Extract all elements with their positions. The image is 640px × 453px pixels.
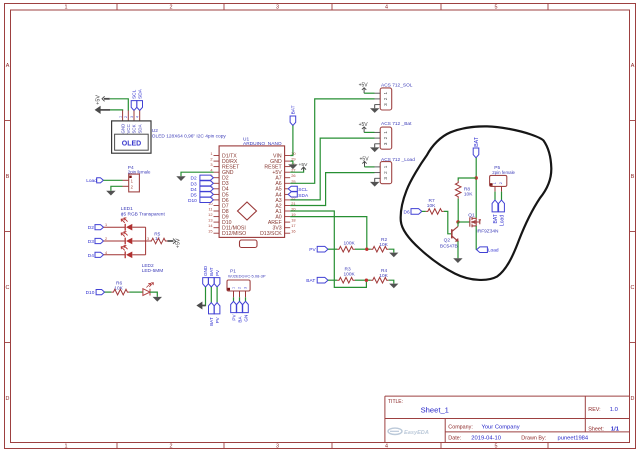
svg-text:SDA: SDA — [137, 124, 142, 133]
svg-text:Load: Load — [500, 215, 506, 226]
net flag BAT (U1 VIN) — [290, 105, 297, 125]
svg-text:4: 4 — [105, 251, 107, 255]
svg-text:3: 3 — [383, 142, 388, 145]
wires P5 pins to flags — [495, 192, 502, 201]
net flag PV (divider) — [309, 246, 328, 253]
wire Q2 emitter to ground — [457, 241, 459, 258]
svg-text:3: 3 — [276, 444, 279, 450]
MCU U1 left pin stubs — [214, 156, 220, 234]
svg-text:D5: D5 — [191, 192, 197, 198]
svg-text:BA: BA — [237, 316, 242, 323]
wire +5V to ACS712_Load pin1 — [365, 166, 375, 168]
svg-text:+5V: +5V — [359, 83, 369, 89]
wire +5V to OLED VCC — [110, 99, 128, 111]
wire U1 GND pin29 to ground — [290, 161, 293, 164]
wire U1 GND pin4 to ground — [181, 172, 214, 176]
MCU U1 left pin numbers — [208, 151, 213, 234]
svg-text:PV: PV — [309, 247, 316, 253]
svg-text:1/1: 1/1 — [611, 426, 620, 432]
svg-text:2: 2 — [499, 182, 503, 184]
svg-text:1: 1 — [65, 5, 68, 11]
svg-text:WJ2EDGVC-5.08-3P: WJ2EDGVC-5.08-3P — [228, 273, 266, 278]
net flag GND (left trio above P1) — [203, 265, 209, 287]
resistor R7 — [426, 198, 444, 214]
OLED U2 pin names — [120, 124, 142, 134]
svg-text:Q1: Q1 — [468, 213, 475, 219]
svg-text:+5V: +5V — [95, 95, 101, 105]
net flag BAT (blob top) — [473, 136, 480, 158]
svg-text:Sheet:: Sheet: — [588, 426, 604, 432]
ground (R2) — [389, 253, 398, 258]
LED2 labels — [142, 263, 164, 274]
svg-text:2pin female: 2pin female — [492, 170, 515, 175]
power flag +5V (ACS712_Bal) — [359, 122, 369, 133]
svg-text:D10: D10 — [188, 198, 197, 204]
wire Q2 collector to gate junction — [457, 222, 459, 226]
wire U1 A6 to ACS712_SOL pin2 — [290, 99, 374, 183]
wire +5V to ACS712_SOL pin1 — [364, 92, 374, 94]
svg-text:+5V: +5V — [175, 238, 181, 248]
svg-text:3: 3 — [383, 103, 388, 106]
svg-text:4: 4 — [385, 444, 388, 450]
MCU U1 right pin stubs — [285, 156, 291, 234]
svg-text:PV: PV — [215, 316, 220, 323]
wire D10 to R6 — [105, 291, 112, 293]
svg-text:1: 1 — [383, 165, 388, 168]
wire ACS712_SOL pin3 to ground — [374, 105, 376, 109]
net flag D6 (R7) — [404, 209, 422, 216]
svg-text:3: 3 — [383, 177, 388, 180]
svg-text:BAT: BAT — [209, 317, 214, 326]
svg-text:B: B — [631, 174, 635, 180]
wire ACS712_Bal pin3 to ground — [374, 144, 376, 148]
wire U1 A0 to PV divider junction — [290, 217, 367, 250]
ground (LED2) — [153, 297, 162, 302]
title block text — [388, 399, 620, 441]
svg-text:LED1: LED1 — [121, 206, 133, 212]
svg-text:LED2: LED2 — [142, 263, 154, 269]
svg-text:SCK: SCK — [132, 124, 137, 133]
svg-text:D6: D6 — [404, 209, 410, 215]
net flag D2 (LED1) — [88, 225, 104, 232]
svg-text:12: 12 — [208, 212, 212, 217]
svg-text:TITLE:: TITLE: — [388, 399, 403, 405]
wire R4 to ground — [389, 280, 394, 283]
wire R2 to ground — [389, 249, 394, 252]
svg-text:C: C — [6, 285, 10, 291]
net flag SDA (OLED) — [137, 88, 144, 110]
svg-text:1: 1 — [383, 92, 388, 95]
svg-text:4: 4 — [385, 5, 388, 11]
svg-text:D: D — [631, 396, 635, 402]
junction BAT divider — [365, 279, 368, 282]
wire gate junction to Q1 gate — [458, 221, 470, 223]
svg-text:100K: 100K — [344, 272, 356, 278]
svg-text:18: 18 — [291, 218, 295, 223]
transistor Q2 BC547B — [452, 226, 458, 241]
net flag D4 (LED1) — [88, 252, 104, 259]
net flag Load (Q1) — [477, 247, 499, 254]
resistor R5 — [149, 231, 167, 244]
ground (ACS712_Bal) — [370, 147, 379, 152]
MCU U1 diamond — [238, 202, 257, 220]
svg-text:2: 2 — [383, 171, 388, 174]
net flag D4 (U1) — [191, 186, 214, 193]
wire Load flag to P4 pin1 — [103, 179, 122, 181]
wire Q1 drain to Load flag — [475, 226, 477, 250]
resistor R4 — [371, 268, 389, 283]
svg-text:2: 2 — [170, 5, 173, 11]
svg-text:D4: D4 — [191, 187, 197, 193]
svg-text:GND: GND — [203, 265, 208, 276]
wire U1 A2 to ACS712_Load pin2 — [290, 173, 374, 206]
svg-text:OLED 128X64 0,96" I2C 4pin cop: OLED 128X64 0,96" I2C 4pin copy — [152, 134, 227, 140]
LED1 labels — [121, 206, 166, 217]
MCU U1 usb connector — [240, 240, 258, 248]
ground (U1 left) — [176, 176, 185, 181]
wire +5V to ACS712_Bal pin1 — [364, 131, 374, 133]
svg-text:puneet1984: puneet1984 — [558, 436, 589, 442]
svg-text:16: 16 — [291, 229, 295, 234]
power flag +5V (ACS712_Load) — [360, 156, 370, 167]
power flag +5V (OLED) — [95, 95, 109, 105]
wire trio BAT down — [210, 287, 212, 303]
svg-text:Q2: Q2 — [444, 237, 451, 243]
resistor 100K (PV divider top) — [337, 241, 356, 253]
svg-text:3: 3 — [210, 162, 212, 167]
diode LED2 — [143, 283, 154, 296]
wire BAT junction to R8 — [458, 178, 476, 181]
svg-text:2: 2 — [105, 237, 107, 241]
svg-text:PV: PV — [215, 269, 220, 276]
svg-text:D10: D10 — [86, 290, 95, 296]
wire trio GND to ground arrow — [204, 287, 205, 306]
svg-text:1: 1 — [210, 151, 212, 156]
svg-text:BAT: BAT — [306, 278, 315, 284]
svg-text:D13/SCK: D13/SCK — [260, 231, 282, 237]
net flag Load (P5 pin2) — [499, 200, 506, 226]
wire R8 to gate junction — [457, 199, 459, 222]
svg-text:+5V: +5V — [359, 122, 369, 128]
junction PV divider — [365, 248, 368, 251]
svg-text:GN: GN — [243, 315, 248, 322]
svg-text:+5V: +5V — [299, 162, 309, 168]
svg-text:LED-5MM: LED-5MM — [142, 268, 164, 274]
wire D6 flag to R7 — [422, 210, 426, 212]
svg-text:BAT: BAT — [493, 214, 499, 223]
svg-text:Company:: Company: — [448, 425, 473, 431]
svg-text:Your Company: Your Company — [482, 425, 520, 431]
OLED U2 pin numbers — [118, 116, 139, 118]
net flag BAT (middle trio above P1) — [209, 267, 215, 287]
svg-text:A: A — [631, 63, 635, 69]
svg-text:2: 2 — [170, 444, 173, 450]
net flag D3 (U1) — [191, 181, 214, 188]
svg-text:3: 3 — [130, 116, 134, 118]
svg-text:BC547B: BC547B — [440, 243, 458, 249]
svg-text:2: 2 — [210, 157, 212, 162]
connector P4 — [123, 165, 152, 192]
resistor R2 — [371, 237, 389, 252]
OLED U2 pin stubs — [123, 111, 140, 121]
svg-text:5: 5 — [495, 444, 498, 450]
module ACS712_Load — [375, 157, 416, 184]
svg-text:2: 2 — [383, 136, 388, 139]
svg-text:Drawn By:: Drawn By: — [521, 436, 546, 442]
resistor R3 — [337, 267, 356, 284]
wire ACS712_Load pin3 to ground — [374, 178, 376, 182]
svg-text:3: 3 — [147, 237, 149, 241]
svg-text:11: 11 — [208, 207, 212, 212]
svg-text:1: 1 — [232, 287, 236, 289]
net flag BAT (P5 pin1) — [492, 200, 499, 223]
svg-text:D12/MISO: D12/MISO — [222, 231, 246, 237]
LED1 pin numbers — [105, 223, 149, 255]
wire R7 to Q2 base — [444, 211, 452, 233]
net flag D10 (LED2) — [86, 290, 105, 297]
junction gate node — [456, 220, 459, 223]
svg-text:Sheet_1: Sheet_1 — [421, 406, 449, 415]
Q1 labels — [468, 213, 499, 235]
svg-text:1: 1 — [105, 223, 107, 227]
svg-text:1.0: 1.0 — [610, 407, 618, 413]
svg-text:2: 2 — [238, 287, 242, 289]
net flag GND (P1 pin3) — [243, 301, 249, 321]
ground (P4) — [106, 191, 115, 196]
svg-text:15: 15 — [208, 229, 212, 234]
svg-text:1: 1 — [493, 182, 497, 184]
net flag BAT (P1 pin2) — [237, 301, 243, 322]
MCU U1 right pin numbers — [291, 151, 296, 234]
svg-text:100K: 100K — [344, 241, 356, 247]
svg-text:10K: 10K — [379, 273, 388, 279]
svg-text:1: 1 — [118, 116, 122, 118]
wire U1 +5V pin27 to +5V flag — [290, 168, 303, 172]
wire BAT flag to R3 — [328, 279, 337, 281]
wires P1 pins to flags — [234, 297, 246, 301]
svg-text:VCC: VCC — [126, 124, 131, 133]
LED1 RGB led symbol — [104, 227, 150, 255]
power flag +5V (ACS712_SOL) — [359, 83, 369, 94]
svg-text:PV: PV — [231, 314, 236, 321]
module ACS712_Bal — [375, 121, 413, 149]
svg-text:Date:: Date: — [448, 436, 461, 442]
module ACS712_SOL — [375, 82, 413, 110]
svg-text:D4: D4 — [88, 253, 94, 259]
wire R6 to LED2 — [129, 291, 143, 293]
OLED U2 labels — [152, 128, 227, 140]
net flag PV (below trio) — [214, 303, 220, 324]
net flag SDA (U1 A4) — [288, 192, 309, 199]
svg-text:3: 3 — [244, 287, 248, 289]
svg-text:2019-04-10: 2019-04-10 — [471, 436, 501, 442]
svg-text:10K: 10K — [379, 242, 388, 248]
svg-text:D2: D2 — [191, 176, 197, 182]
svg-text:SCL: SCL — [132, 89, 138, 99]
svg-text:3: 3 — [276, 5, 279, 11]
Q2 labels — [440, 237, 458, 249]
svg-text:A: A — [6, 63, 10, 69]
MCU U1 body — [219, 146, 285, 238]
svg-text:5: 5 — [495, 5, 498, 11]
svg-text:SDA: SDA — [137, 88, 143, 99]
power flag +5V (R5) — [167, 238, 181, 248]
svg-text:ACS 712 _Bat: ACS 712 _Bat — [381, 121, 412, 127]
wire U1 A1 to BAT divider junction — [290, 211, 366, 287]
wire P4 pin2 to ground — [111, 186, 123, 191]
hand-drawn enclosure blob — [401, 126, 552, 280]
net flag D5 (U1) — [191, 192, 214, 199]
resistor R8 — [455, 181, 473, 199]
svg-text:D: D — [6, 396, 10, 402]
svg-text:BAT: BAT — [291, 105, 297, 114]
net flag SCL (OLED) — [131, 89, 138, 110]
svg-text:26: 26 — [291, 173, 295, 178]
wire ground to OLED pin1 — [110, 109, 123, 112]
svg-text:13: 13 — [208, 218, 212, 223]
svg-text:2: 2 — [124, 116, 128, 118]
svg-text:Load: Load — [488, 248, 499, 254]
wire 100K to PV junction — [355, 248, 371, 250]
net flag Load (P4) — [86, 178, 103, 185]
svg-text:B: B — [6, 174, 10, 180]
svg-text:U2: U2 — [152, 128, 158, 134]
ground (R4) — [389, 284, 398, 289]
svg-text:R8: R8 — [464, 187, 470, 193]
junction BAT node — [475, 176, 478, 179]
net flag PV (right trio above P1) — [214, 269, 220, 287]
svg-text:IRF9Z34N: IRF9Z34N — [476, 228, 499, 234]
svg-text:REV:: REV: — [588, 407, 600, 413]
svg-text:SCL: SCL — [298, 187, 308, 193]
net flag BAT (below trio) — [209, 303, 215, 326]
ground (U1 right) — [288, 164, 297, 169]
svg-text:17: 17 — [291, 223, 295, 228]
OLED U2 body — [112, 121, 151, 153]
svg-text:D3: D3 — [88, 239, 94, 245]
wire BAT flag down to junction and Q1 source — [475, 158, 477, 219]
net flag PV (P1 pin1) — [231, 301, 237, 320]
net flag BAT (divider) — [306, 277, 328, 284]
connector P5 — [490, 165, 516, 192]
svg-text:D2: D2 — [88, 225, 94, 231]
svg-text:C: C — [631, 285, 635, 291]
LED1 emission arrows — [121, 218, 127, 251]
svg-text:2: 2 — [383, 97, 388, 100]
MCU U1 left pin names — [222, 153, 246, 237]
net flag SCL (U1 A5) — [288, 186, 308, 193]
svg-text:D3: D3 — [191, 181, 197, 187]
ground (ACS712_Load) — [370, 182, 379, 187]
svg-text:1: 1 — [65, 444, 68, 450]
net flag D3 (LED1) — [88, 238, 104, 245]
MCU U1 ARDUINO_NANO labels — [243, 136, 282, 147]
svg-text:BAT: BAT — [209, 267, 214, 276]
connector P1 — [227, 268, 266, 297]
svg-text:1: 1 — [383, 131, 388, 134]
wire R3 to BAT junction — [355, 279, 371, 281]
svg-text:4: 4 — [136, 116, 140, 118]
ground (OLED GND pin) — [95, 106, 110, 114]
net flag D10 (U1) — [188, 197, 213, 204]
wire trio PV down — [216, 287, 218, 303]
ground (Q2) — [453, 258, 462, 263]
svg-text:GND: GND — [120, 124, 125, 134]
svg-text:10K: 10K — [464, 192, 473, 198]
svg-text:SDA: SDA — [298, 193, 309, 199]
wire U1 A3 to ACS712_Bal pin2 — [290, 138, 374, 200]
resistor R6 — [111, 280, 129, 295]
MCU U1 right pin names — [260, 153, 282, 237]
svg-text:OLED: OLED — [122, 141, 141, 148]
ground (ACS712_SOL) — [370, 108, 379, 113]
svg-text:BAT: BAT — [474, 136, 480, 147]
title block — [385, 396, 630, 442]
wire LED2 to ground — [150, 292, 157, 297]
transistor Q1 IRF9Z34N — [470, 217, 481, 227]
EasyEDA logo — [388, 428, 429, 436]
wire PV flag to 100K — [328, 248, 337, 250]
svg-text:Load: Load — [86, 178, 97, 184]
power flag +5V (U1 right) — [299, 162, 309, 171]
svg-text:EasyEDA: EasyEDA — [404, 430, 429, 436]
svg-text:ϕ5 RGB Transparent: ϕ5 RGB Transparent — [121, 212, 166, 218]
net flag D2 (U1) — [191, 175, 214, 182]
ground arrow (P1 area) — [196, 302, 202, 310]
wire BAT flag to VIN — [290, 126, 293, 156]
